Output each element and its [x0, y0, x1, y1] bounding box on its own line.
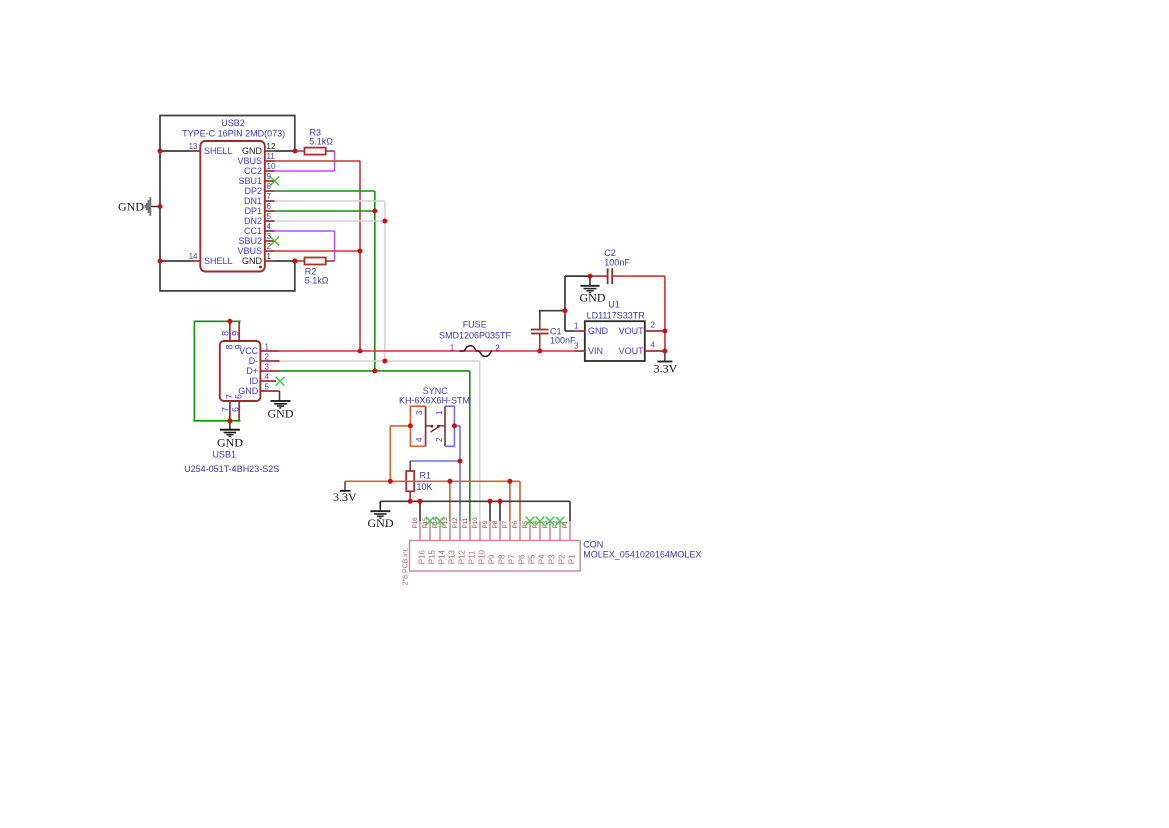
svg-text:P10: P10	[472, 517, 479, 529]
svg-text:D-: D-	[249, 356, 259, 366]
regulator U1 body	[585, 321, 645, 361]
svg-text:2: 2	[495, 343, 500, 352]
wire CC1 purple vertical to R2	[334, 231, 336, 261]
capacitor C2	[590, 248, 630, 284]
ground flag GND above U1	[580, 276, 606, 304]
svg-text:2: 2	[435, 437, 444, 442]
node gnd flag C2	[588, 274, 593, 279]
svg-text:4: 4	[265, 373, 270, 382]
wire D+ vertical to P11	[469, 371, 471, 521]
wire VBUS pin11 horizontal	[275, 160, 361, 162]
connector USB2 body	[200, 141, 264, 272]
svg-text:5.1kΩ: 5.1kΩ	[309, 136, 333, 146]
wire stub bottom shield to ground	[229, 421, 231, 430]
svg-text:P11: P11	[467, 550, 476, 564]
node R2 left	[293, 259, 298, 264]
svg-text:GND: GND	[580, 290, 606, 304]
wire blue horizontal to R1	[410, 460, 460, 462]
svg-text:P6: P6	[512, 520, 519, 528]
pin 14 SHELL stub	[191, 260, 201, 262]
svg-text:TYPE-C 16PIN 2MD(073): TYPE-C 16PIN 2MD(073)	[182, 128, 285, 138]
svg-text:4: 4	[267, 222, 272, 231]
svg-text:3: 3	[415, 410, 424, 415]
svg-text:GND: GND	[242, 146, 263, 156]
wire GND top horizontal to flag	[565, 275, 590, 277]
svg-text:6: 6	[230, 407, 240, 412]
svg-text:SHELL: SHELL	[204, 146, 233, 156]
svg-text:10K: 10K	[417, 482, 433, 492]
svg-text:3.3V: 3.3V	[654, 362, 678, 376]
svg-text:6: 6	[267, 202, 272, 211]
node C1 top gnd	[563, 308, 568, 313]
node USB1 shield bottom	[227, 418, 232, 423]
svg-text:2: 2	[265, 353, 270, 362]
svg-text:KH-6X6X6H-STM: KH-6X6X6H-STM	[399, 396, 470, 406]
U1 pin names	[588, 326, 644, 356]
pin 13 SHELL stub	[191, 150, 201, 152]
svg-text:1: 1	[265, 343, 270, 352]
svg-text:GND: GND	[242, 256, 263, 266]
wire orange drop to P6	[519, 481, 521, 521]
no-connect X on SBU2	[270, 237, 279, 246]
wire orange switch down to rail	[389, 426, 391, 481]
svg-text:D+: D+	[246, 366, 258, 376]
wire GND to U1 pin1	[565, 330, 575, 332]
no-connect X on ID	[276, 377, 285, 386]
svg-text:3.3V: 3.3V	[333, 490, 357, 504]
svg-text:P14: P14	[437, 550, 446, 565]
resistor R1	[406, 461, 432, 501]
svg-text:4: 4	[415, 437, 424, 442]
svg-text:USB2: USB2	[221, 118, 245, 128]
capacitor C1	[531, 320, 576, 352]
svg-text:5: 5	[265, 383, 270, 392]
svg-text:CON: CON	[583, 540, 603, 550]
wire D- vertical to P10	[479, 361, 481, 521]
wire DN2 horizontal	[275, 220, 385, 222]
wire CC2 purple vertical to R3	[334, 151, 336, 171]
wire DP vertical	[374, 191, 376, 371]
wire GND shield loop around USB2	[160, 116, 295, 291]
USB2 right pin numbers	[267, 142, 276, 261]
node shield bottom-left	[158, 259, 163, 264]
switch SYNC left pin bar	[425, 406, 427, 446]
svg-text:VOUT: VOUT	[619, 326, 645, 336]
wire GND from pin5	[279, 391, 281, 401]
svg-text:VBUS: VBUS	[237, 246, 262, 256]
node GND rail P9	[488, 499, 493, 504]
svg-text:P11: P11	[462, 517, 469, 528]
wire DN1 horizontal	[275, 200, 385, 202]
wire orange drop to P7	[509, 481, 511, 521]
svg-text:1: 1	[450, 343, 455, 352]
wire orange loop switch left	[410, 406, 425, 446]
wire GND C1 top to tee	[540, 311, 565, 320]
node 3.3V rail left	[388, 479, 393, 484]
node GND rail P8	[498, 499, 503, 504]
wire black drop to P16	[419, 501, 421, 521]
svg-text:100nF: 100nF	[550, 335, 576, 345]
svg-text:GND: GND	[118, 200, 144, 214]
USB1 right pin numbers	[265, 343, 270, 392]
svg-text:GND: GND	[268, 407, 294, 421]
fuse FUSE symbol	[460, 346, 493, 357]
node C1 bottom	[537, 349, 542, 354]
wire orange drop to P13	[449, 481, 451, 521]
USB2 right pin names	[237, 146, 262, 266]
svg-text:10: 10	[267, 162, 276, 171]
svg-text:2: 2	[651, 321, 656, 330]
svg-text:1: 1	[574, 322, 579, 331]
svg-text:13: 13	[189, 142, 198, 151]
svg-text:P5: P5	[527, 554, 536, 564]
wire black drop to P9	[489, 501, 491, 521]
svg-text:R1: R1	[420, 471, 432, 481]
svg-text:P12: P12	[457, 550, 466, 565]
svg-text:2: 2	[267, 242, 272, 251]
node 3.3V rail P13	[447, 479, 452, 484]
CON rotated net labels above pins	[412, 517, 569, 529]
wire VOUT horizontal from C2	[612, 275, 665, 277]
wire VBUS vertical	[359, 161, 361, 351]
node 3.3V rail P7	[507, 479, 512, 484]
wire orange 3.3V rail horizontal	[345, 480, 520, 482]
svg-text:3: 3	[574, 342, 579, 351]
svg-text:SYNC: SYNC	[423, 386, 449, 396]
svg-text:ID: ID	[249, 376, 259, 386]
svg-text:DN2: DN2	[244, 216, 262, 226]
wire VBUS pin2 horizontal	[275, 250, 361, 252]
svg-text:1: 1	[267, 252, 272, 261]
svg-text:SMD1206P035TF: SMD1206P035TF	[439, 331, 512, 341]
svg-text:P12: P12	[452, 517, 459, 529]
wire black drop to P1	[569, 501, 571, 521]
node shield top-left	[158, 149, 163, 154]
svg-text:2*8 PCB int.: 2*8 PCB int.	[402, 547, 409, 585]
wire GND pin1 to shield	[275, 260, 296, 262]
svg-text:USB1: USB1	[212, 449, 236, 459]
component origin dot USB2	[259, 266, 262, 269]
USB1 rotated pin numbers	[220, 331, 243, 412]
node VBUS pin2	[358, 249, 363, 254]
switch SYNC right pin bar	[444, 406, 446, 446]
node DN2	[382, 219, 387, 224]
svg-text:P10: P10	[477, 550, 486, 565]
node shield gnd flag	[158, 204, 163, 209]
node DP1	[372, 209, 377, 214]
wire VBUS main red rail	[280, 350, 576, 352]
svg-text:P16: P16	[412, 517, 419, 529]
node D- tee	[382, 359, 387, 364]
wire CC2 purple horizontal	[275, 170, 335, 172]
svg-text:7: 7	[220, 407, 230, 412]
ground symbol below USB1	[220, 430, 240, 437]
no-connect X on SBU1	[270, 177, 279, 186]
svg-text:FUSE: FUSE	[463, 320, 487, 330]
svg-text:P8: P8	[492, 520, 499, 528]
wire DP2 horizontal	[275, 190, 375, 192]
svg-text:8: 8	[267, 182, 272, 191]
svg-text:P3: P3	[547, 554, 556, 564]
svg-text:12: 12	[267, 142, 276, 151]
svg-text:P1: P1	[567, 554, 576, 564]
USB1 right pin names	[238, 346, 259, 396]
svg-text:LD1117S33TR: LD1117S33TR	[587, 310, 646, 320]
svg-text:P7: P7	[507, 554, 516, 564]
node switch right	[452, 423, 457, 428]
svg-text:U254-051T-4BH23-S2S: U254-051T-4BH23-S2S	[184, 464, 279, 474]
USB1 right pin stubs 1..5	[260, 351, 279, 391]
svg-text:P9: P9	[482, 520, 489, 528]
svg-text:P6: P6	[517, 554, 526, 564]
wire GND vertical at x565	[564, 276, 566, 331]
svg-text:14: 14	[189, 252, 198, 261]
svg-text:6: 6	[234, 394, 244, 399]
svg-text:4: 4	[651, 341, 656, 350]
svg-text:VOUT: VOUT	[619, 346, 645, 356]
svg-text:P4: P4	[537, 554, 546, 564]
svg-text:100nF: 100nF	[604, 258, 630, 268]
U1 pin numbers	[574, 321, 655, 351]
wire blue switch stub right	[454, 425, 460, 427]
svg-text:DN1: DN1	[244, 196, 262, 206]
svg-text:P13: P13	[447, 550, 456, 565]
svg-text:P15: P15	[427, 550, 436, 565]
power flag 3.3V at U1 output	[654, 351, 678, 376]
svg-text:9: 9	[234, 344, 244, 349]
node VOUT pin2	[662, 329, 667, 334]
svg-text:DP2: DP2	[244, 186, 262, 196]
wire blue loop switch right	[445, 406, 454, 446]
ground flag GND left of USB2	[118, 197, 160, 216]
svg-text:7: 7	[267, 192, 272, 201]
node D+ tee	[372, 368, 377, 373]
svg-text:5.1kΩ: 5.1kΩ	[305, 275, 329, 285]
svg-text:GND: GND	[588, 326, 609, 336]
resistor R2	[295, 258, 335, 286]
ground symbol at USB1 pin5	[271, 401, 291, 408]
no-connect X marks on CON pins	[426, 517, 565, 526]
node R1 top	[458, 459, 463, 464]
switch contacts	[426, 425, 445, 432]
wire DP1 horizontal	[275, 210, 375, 212]
node USB1 shield top	[227, 319, 232, 324]
node VBUS fuse rail	[358, 349, 363, 354]
svg-text:SBU1: SBU1	[238, 176, 262, 186]
connector USB1 body	[220, 341, 261, 401]
node GND rail P16	[418, 499, 423, 504]
svg-text:SHELL: SHELL	[204, 256, 233, 266]
svg-text:P16: P16	[417, 550, 426, 565]
USB2 right pin stubs 12..1	[265, 151, 275, 261]
USB1 top pin stubs 8,9	[230, 321, 239, 341]
svg-text:P8: P8	[497, 554, 506, 564]
svg-text:1: 1	[435, 410, 444, 415]
svg-text:CC2: CC2	[244, 166, 262, 176]
svg-text:VIN: VIN	[588, 346, 603, 356]
svg-text:3: 3	[265, 363, 270, 372]
svg-text:11: 11	[267, 152, 276, 161]
wire DN vertical	[384, 201, 386, 361]
wire D+ horizontal from USB1	[280, 370, 470, 372]
svg-text:P2: P2	[557, 554, 566, 564]
wire VOUT vertical	[664, 276, 666, 351]
wire green shield loop USB1	[194, 321, 240, 421]
svg-text:DP1: DP1	[244, 206, 262, 216]
U1 pin stubs	[575, 331, 665, 351]
resistor R3	[295, 127, 335, 154]
node VOUT pin4	[662, 349, 667, 354]
svg-text:8: 8	[220, 331, 230, 336]
svg-text:GND: GND	[368, 516, 394, 530]
wire shell14	[160, 260, 191, 262]
CON pin stubs	[420, 521, 570, 540]
switch rotated pin numbers	[415, 410, 444, 442]
svg-text:CC1: CC1	[244, 226, 262, 236]
svg-text:U1: U1	[608, 300, 620, 310]
node R3 left	[293, 149, 298, 154]
wire CC1 purple horizontal	[275, 230, 335, 232]
svg-text:GND: GND	[217, 436, 243, 450]
svg-text:P5: P5	[522, 520, 529, 528]
CON rotated pin names inside body	[417, 550, 576, 565]
wire GND pin12 to shield	[275, 150, 296, 152]
svg-text:5: 5	[267, 212, 272, 221]
svg-text:SBU2: SBU2	[238, 236, 262, 246]
node switch left	[408, 423, 413, 428]
ground flag GND below 3.3V rail	[368, 501, 394, 530]
wire black drop to P8	[499, 501, 501, 521]
wire shell13	[160, 150, 191, 152]
power flag 3.3V left	[333, 481, 357, 504]
connector CON body	[410, 541, 581, 572]
svg-text:P7: P7	[502, 520, 509, 528]
svg-text:MOLEX_0541020164MOLEX: MOLEX_0541020164MOLEX	[583, 549, 701, 559]
svg-text:9: 9	[230, 331, 240, 336]
wire D- horizontal from USB1	[280, 360, 480, 362]
wire blue vertical to P12	[459, 426, 461, 521]
svg-text:VBUS: VBUS	[237, 156, 262, 166]
wire black GND rail horizontal	[380, 500, 570, 502]
svg-text:P9: P9	[487, 554, 496, 564]
node GND rail R1	[408, 499, 413, 504]
USB1 bottom pin stubs 7,6	[230, 401, 239, 421]
wire orange switch left horizontal	[390, 425, 410, 427]
